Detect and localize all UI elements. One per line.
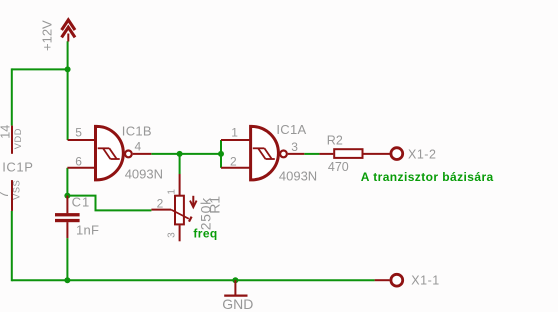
svg-text:X1-2: X1-2: [408, 147, 436, 161]
junction at +12V rail: [65, 66, 71, 72]
wire node to R1 pin 1: [179, 154, 181, 174]
junction C1 to GND rail: [64, 277, 70, 283]
R2 right pin to X1-2: [363, 153, 390, 155]
pin 6 of IC1B: [67, 167, 95, 169]
svg-text:1: 1: [231, 126, 238, 140]
svg-text:7: 7: [0, 191, 11, 198]
svg-text:VDD: VDD: [13, 128, 23, 149]
svg-text:X1-1: X1-1: [411, 274, 439, 288]
svg-text:470: 470: [328, 160, 349, 174]
wire top rail +12V: [12, 68, 68, 70]
connector pad X1-2: [391, 148, 403, 160]
svg-text:3: 3: [291, 140, 298, 154]
svg-text:IC1P: IC1P: [2, 160, 33, 175]
schmitt hysteresis mark IC1B: [98, 148, 120, 159]
svg-text:1nF: 1nF: [76, 223, 99, 238]
svg-text:6: 6: [75, 155, 82, 169]
svg-text:4: 4: [135, 139, 142, 153]
pin 1 of IC1A: [221, 139, 250, 141]
wire C1 bottom to GND rail: [66, 238, 68, 280]
pin 2 of IC1A: [221, 167, 250, 169]
svg-text:3: 3: [167, 232, 178, 238]
svg-text:2: 2: [230, 154, 237, 168]
trimmer R1 body: [175, 196, 184, 225]
R2 left pin: [319, 153, 333, 155]
junction pin6/C1/R1 node: [64, 193, 70, 199]
wire IC1A input tie pins 1-2: [220, 140, 222, 168]
svg-text:VSS: VSS: [12, 180, 22, 200]
svg-text:+12V: +12V: [39, 20, 54, 51]
C1 bottom pin: [66, 222, 68, 238]
svg-text:2: 2: [157, 197, 164, 211]
GND stem: [234, 280, 236, 295]
pin 5 of IC1B: [68, 139, 96, 141]
wire +12V arrow to pin 5: [67, 41, 69, 140]
R1 pin 3 stub: [179, 225, 181, 241]
svg-text:IC1A: IC1A: [276, 122, 306, 137]
GND symbol bar: [224, 294, 247, 296]
op-amp-like NAND body IC1B: [96, 126, 124, 179]
connector pad X1-1: [391, 274, 403, 286]
X1-1 pin stub: [375, 279, 390, 281]
resistor R2 body: [334, 149, 362, 158]
R1 wiper pin 2: [151, 210, 191, 222]
pin 4 output stub IC1B: [133, 153, 152, 155]
svg-text:C1: C1: [72, 194, 91, 209]
C1 top pin: [66, 196, 68, 214]
wire IC1B output to IC1A inputs: [151, 153, 221, 155]
inversion bubble IC1A pin 3: [280, 151, 287, 158]
wire left vertical from VSS pin to bottom rail: [11, 211, 13, 281]
pin 7 VSS of IC1P: [11, 180, 13, 211]
pin 14 VDD of IC1P: [11, 126, 13, 154]
capacitor C1 plates: [55, 213, 80, 222]
svg-text:A tranzisztor bázisára: A tranzisztor bázisára: [361, 170, 494, 184]
junction at IC1A inputs: [218, 151, 224, 157]
wire bottom GND rail: [12, 279, 375, 281]
svg-text:freq: freq: [193, 227, 217, 241]
junction output to R1: [177, 151, 183, 157]
svg-text:4093N: 4093N: [279, 168, 317, 183]
R1 pin 1 stub: [179, 174, 181, 195]
svg-text:5: 5: [75, 126, 82, 140]
junction GND symbol: [232, 277, 238, 283]
svg-text:R2: R2: [327, 134, 343, 148]
wire node to R1 pin 2: [67, 196, 151, 211]
+12V supply arrow: [62, 20, 75, 42]
inversion bubble IC1B pin 4: [125, 151, 132, 158]
R1 adjustment arrow: [190, 196, 197, 207]
wire left vertical to VDD pin: [11, 68, 13, 125]
pin 3 output stub IC1A: [288, 153, 304, 155]
svg-text:1: 1: [167, 189, 178, 195]
NAND body IC1A: [251, 126, 279, 179]
wire pin 6 down to node: [66, 168, 68, 196]
svg-text:IC1B: IC1B: [122, 123, 152, 138]
svg-text:GND: GND: [222, 296, 253, 312]
svg-text:R1: R1: [207, 196, 223, 214]
schmitt hysteresis mark IC1A: [253, 148, 275, 159]
wire IC1A output net: [304, 153, 319, 155]
svg-text:14: 14: [0, 125, 12, 139]
svg-text:4093N: 4093N: [125, 167, 163, 182]
